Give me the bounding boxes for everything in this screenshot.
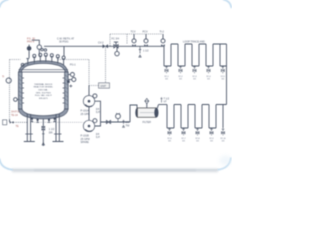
head flange double line bbox=[19, 70, 69, 72]
svg-text:PRV-4: PRV-4 bbox=[27, 41, 35, 44]
leg gussets bbox=[25, 133, 61, 135]
svg-text:1 1/2: 1 1/2 bbox=[143, 50, 149, 53]
svg-text:ST-6: ST-6 bbox=[167, 138, 172, 140]
svg-text:REACTOR VESSEL: REACTOR VESSEL bbox=[34, 86, 54, 89]
control valve w T-actuator (x=116) bbox=[114, 42, 118, 46]
svg-text:3/4: 3/4 bbox=[196, 141, 200, 143]
instrument circle with L-line (x=41.5) bbox=[32, 40, 40, 45]
svg-text:TI-2: TI-2 bbox=[160, 31, 165, 34]
inner wall nubs right bbox=[63, 78, 65, 103]
wire between pumps bbox=[88, 107, 90, 120]
outlet to serpentine bbox=[157, 105, 158, 109]
svg-text:ST-10: ST-10 bbox=[220, 138, 226, 140]
nozzle stubs under dish bbox=[31, 117, 56, 122]
svg-text:3/4: 3/4 bbox=[168, 141, 172, 143]
control station TCV (x=134) bbox=[132, 34, 136, 47]
grade dashed line under vessel bbox=[30, 121, 83, 123]
svg-text:FILTER: FILTER bbox=[143, 121, 152, 124]
svg-text:ST-9: ST-9 bbox=[209, 138, 214, 140]
svg-text:UNIT: UNIT bbox=[100, 85, 106, 88]
svg-text:TE-14: TE-14 bbox=[11, 114, 18, 117]
svg-text:25 GPM: 25 GPM bbox=[81, 113, 90, 116]
feed drop to dome nozzle bbox=[63, 46, 65, 56]
small flange disc far left of dome bbox=[21, 63, 24, 66]
svg-text:3/4: 3/4 bbox=[222, 141, 226, 143]
svg-text:THERMAL SHOCK: THERMAL SHOCK bbox=[34, 83, 53, 86]
svg-text:ST-4: ST-4 bbox=[206, 76, 211, 78]
svg-text:VT: VT bbox=[164, 101, 168, 104]
svg-text:PG-1: PG-1 bbox=[70, 64, 76, 67]
bottom outlet spec marks bbox=[42, 134, 45, 145]
svg-text:30 PSIG: 30 PSIG bbox=[59, 41, 69, 44]
pressure gauge bbox=[116, 114, 121, 119]
svg-text:3/4: 3/4 bbox=[182, 141, 186, 143]
pump suction line bbox=[88, 86, 90, 96]
svg-text:TCV: TCV bbox=[131, 31, 136, 34]
pump P-101A bbox=[83, 96, 94, 107]
svg-text:ST-3: ST-3 bbox=[192, 76, 197, 78]
control station TI-2 (x=163) bbox=[161, 34, 165, 47]
dark instrument top-left of dome bbox=[27, 46, 32, 51]
dome nozzles (stubs with flange caps) bbox=[26, 59, 29, 65]
solid valve on header bbox=[103, 44, 108, 48]
corner arcs bbox=[0, 0, 231, 170]
svg-text:TW: TW bbox=[126, 124, 131, 127]
svg-text:TI: TI bbox=[2, 76, 5, 79]
bottom shadow band bbox=[12, 169, 218, 172]
svg-text:ST-5: ST-5 bbox=[221, 76, 226, 78]
vessel top dome (jacketed band) bbox=[18, 61, 68, 75]
control station PCV (x=146) bbox=[144, 34, 148, 47]
vessel legs bbox=[27, 114, 59, 141]
bottom U buses bbox=[164, 65, 227, 67]
tick/arrow right of gauge bbox=[122, 120, 124, 128]
svg-text:SPARE: SPARE bbox=[81, 141, 90, 144]
instrument bubbles above dome bbox=[33, 54, 36, 57]
svg-text:DES. 150 PSIG: DES. 150 PSIG bbox=[36, 92, 51, 94]
vessel text block bbox=[34, 83, 54, 100]
svg-text:S/N 4471: S/N 4471 bbox=[39, 98, 49, 100]
check valve on manifold bbox=[106, 120, 110, 124]
branch below header bbox=[139, 46, 141, 57]
inner wall nubs left bbox=[22, 78, 24, 103]
svg-text:3/4: 3/4 bbox=[179, 79, 183, 81]
right wall band bbox=[65, 72, 69, 109]
svg-text:3/4: 3/4 bbox=[210, 141, 214, 143]
svg-text:ST-2: ST-2 bbox=[178, 76, 183, 78]
top buses bbox=[171, 43, 227, 45]
card frame: corner arcs + bottom shadow bbox=[0, 0, 232, 193]
bubble with flag under it bbox=[116, 46, 118, 51]
svg-text:3/4: 3/4 bbox=[193, 79, 197, 81]
svg-text:TE: TE bbox=[16, 125, 20, 128]
svg-text:CV-2: CV-2 bbox=[98, 41, 104, 44]
svg-text:1000 GAL.: 1000 GAL. bbox=[38, 89, 49, 92]
leg feet bbox=[24, 141, 64, 143]
svg-text:ST-1: ST-1 bbox=[164, 76, 169, 78]
soft glow at bottom-right corner bbox=[220, 156, 232, 166]
trap labels lower bbox=[167, 138, 226, 143]
svg-text:S.P.: S.P. bbox=[96, 111, 101, 114]
bottom outlet valve (solid) bbox=[42, 126, 46, 131]
svg-text:FC 3/4: FC 3/4 bbox=[112, 38, 120, 41]
tick near serpentine entry bbox=[160, 97, 162, 102]
svg-text:3/4: 3/4 bbox=[221, 79, 225, 81]
bottom dish (jacketed band, shallow) bbox=[18, 109, 68, 119]
right downcomer bbox=[226, 44, 228, 105]
svg-text:PCV: PCV bbox=[143, 31, 148, 34]
svg-text:FULL VAC. 650 F: FULL VAC. 650 F bbox=[35, 94, 52, 97]
svg-text:S.P.: S.P. bbox=[96, 136, 101, 139]
vent diamond bbox=[146, 104, 148, 108]
svg-text:DR.: DR. bbox=[49, 131, 54, 134]
svg-text:ST-7: ST-7 bbox=[181, 138, 186, 140]
pump P-101B bbox=[83, 120, 94, 131]
discharge manifold bbox=[95, 101, 101, 126]
left wall band bbox=[18, 72, 22, 109]
svg-text:LOOP TRACE AND: LOOP TRACE AND bbox=[183, 40, 205, 43]
bottom-left cluster bbox=[9, 120, 11, 123]
trap labels upper bbox=[164, 76, 225, 81]
vessel right-side instruments bbox=[14, 73, 76, 102]
bottom center outlet line bbox=[42, 119, 44, 146]
faint bottom hairline of card bbox=[13, 169, 218, 171]
dashed instrument box segments bbox=[110, 34, 163, 46]
svg-text:ST-8: ST-8 bbox=[195, 138, 200, 140]
svg-text:3/4: 3/4 bbox=[207, 79, 211, 81]
svg-text:3/4: 3/4 bbox=[165, 79, 169, 81]
